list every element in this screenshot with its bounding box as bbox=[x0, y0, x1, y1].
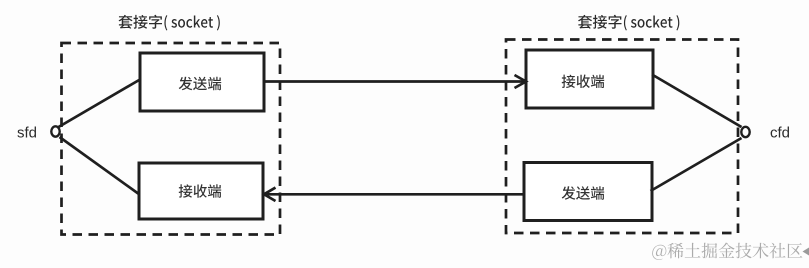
left sender label 发送端 bbox=[179, 77, 222, 91]
watermark @稀土掘金技术社区 bbox=[652, 243, 802, 260]
sfd node circle bbox=[51, 126, 59, 136]
wire arrow right sender to left receiver bbox=[264, 188, 524, 201]
left receiver label 接收端 bbox=[179, 184, 222, 197]
right receiver label 接收端 bbox=[562, 75, 605, 88]
right title CJK 套接字 bbox=[578, 15, 622, 29]
wire right sender to cfd bbox=[651, 138, 742, 191]
wire right receiver to cfd bbox=[652, 75, 742, 128]
right receiver box 接收端 bbox=[526, 50, 653, 108]
wire arrow left sender to right receiver bbox=[264, 75, 526, 88]
right title latin ( socket ) bbox=[624, 15, 679, 30]
right socket dashed box bbox=[506, 40, 738, 234]
wire sfd to left receiver bbox=[60, 137, 140, 195]
wire sfd to left sender bbox=[59, 80, 141, 128]
left receiver box 接收端 bbox=[139, 163, 263, 219]
left title latin ( socket ) bbox=[164, 15, 219, 30]
left socket dashed box bbox=[62, 43, 281, 235]
svg-text:sfd: sfd bbox=[17, 125, 37, 142]
watermark logo fragment bbox=[803, 248, 809, 256]
svg-text:cfd: cfd bbox=[770, 125, 790, 142]
left sender box 发送端 bbox=[140, 53, 264, 111]
left title CJK 套接字 bbox=[118, 15, 162, 29]
cfd node circle bbox=[741, 127, 749, 137]
right sender box 发送端 bbox=[524, 163, 652, 221]
right sender label 发送端 bbox=[562, 186, 605, 200]
